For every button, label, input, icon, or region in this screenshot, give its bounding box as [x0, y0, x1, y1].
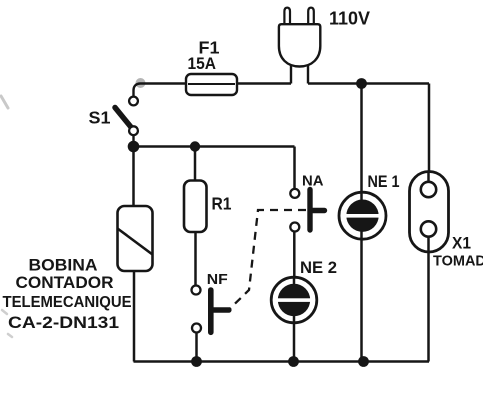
svg-text:CONTADOR: CONTADOR [16, 273, 114, 292]
fuse F1 [186, 74, 237, 95]
svg-text:TELEMECANIQUE: TELEMECANIQUE [3, 294, 132, 311]
svg-text:TOMADA: TOMADA [433, 254, 483, 270]
node junction bottom NF [191, 356, 202, 367]
switch S1 [115, 84, 141, 143]
coil diagonal [118, 229, 153, 255]
svg-text:NE 2: NE 2 [300, 258, 337, 277]
svg-text:NA: NA [302, 174, 324, 190]
wire top-right [308, 82, 429, 85]
svg-text:R1: R1 [212, 194, 232, 214]
wire top-left through fuse [141, 82, 292, 85]
gray terminal dot [136, 78, 146, 88]
lamp NE1 [339, 84, 386, 362]
svg-text:NE 1: NE 1 [368, 172, 400, 191]
resistor R1 [184, 181, 207, 233]
wire NA branch [293, 147, 296, 189]
wire through fuse [188, 83, 235, 85]
lamp NE2 [271, 277, 317, 361]
wire to coil [132, 147, 135, 207]
dashed mechanical link [230, 210, 306, 309]
node junction bottom NE2 [288, 356, 299, 367]
wire R1 to NF [194, 232, 197, 286]
node junction R1 top [190, 141, 200, 151]
svg-text:X1: X1 [452, 235, 471, 253]
coil contactor K1 [118, 206, 153, 271]
contact NA [290, 189, 324, 232]
svg-text:15A: 15A [188, 55, 217, 73]
wire bottom rail [134, 360, 430, 363]
svg-text:BOBINA: BOBINA [29, 256, 98, 275]
node junction bottom NE1 [358, 356, 369, 367]
node junction S1 bottom [128, 141, 140, 153]
wire NA to NE2 and bottom [293, 232, 296, 279]
socket X1 [410, 172, 449, 362]
wire to R1 [194, 147, 197, 182]
wire X1 branch down [428, 84, 431, 173]
node junction top-right [356, 78, 367, 89]
svg-text:S1: S1 [89, 108, 111, 128]
svg-text:CA-2-DN131: CA-2-DN131 [8, 313, 119, 332]
wire coil to bottom [133, 271, 136, 362]
scan artifact gray mark left edge [1, 96, 8, 108]
wire node row [134, 145, 295, 148]
plug P1 [279, 8, 320, 84]
svg-text:110V: 110V [329, 8, 371, 29]
svg-text:NF: NF [207, 272, 228, 288]
contact NF [192, 286, 229, 333]
wire NF to bottom [195, 333, 198, 362]
scan artifact specks bottom left [2, 310, 12, 337]
